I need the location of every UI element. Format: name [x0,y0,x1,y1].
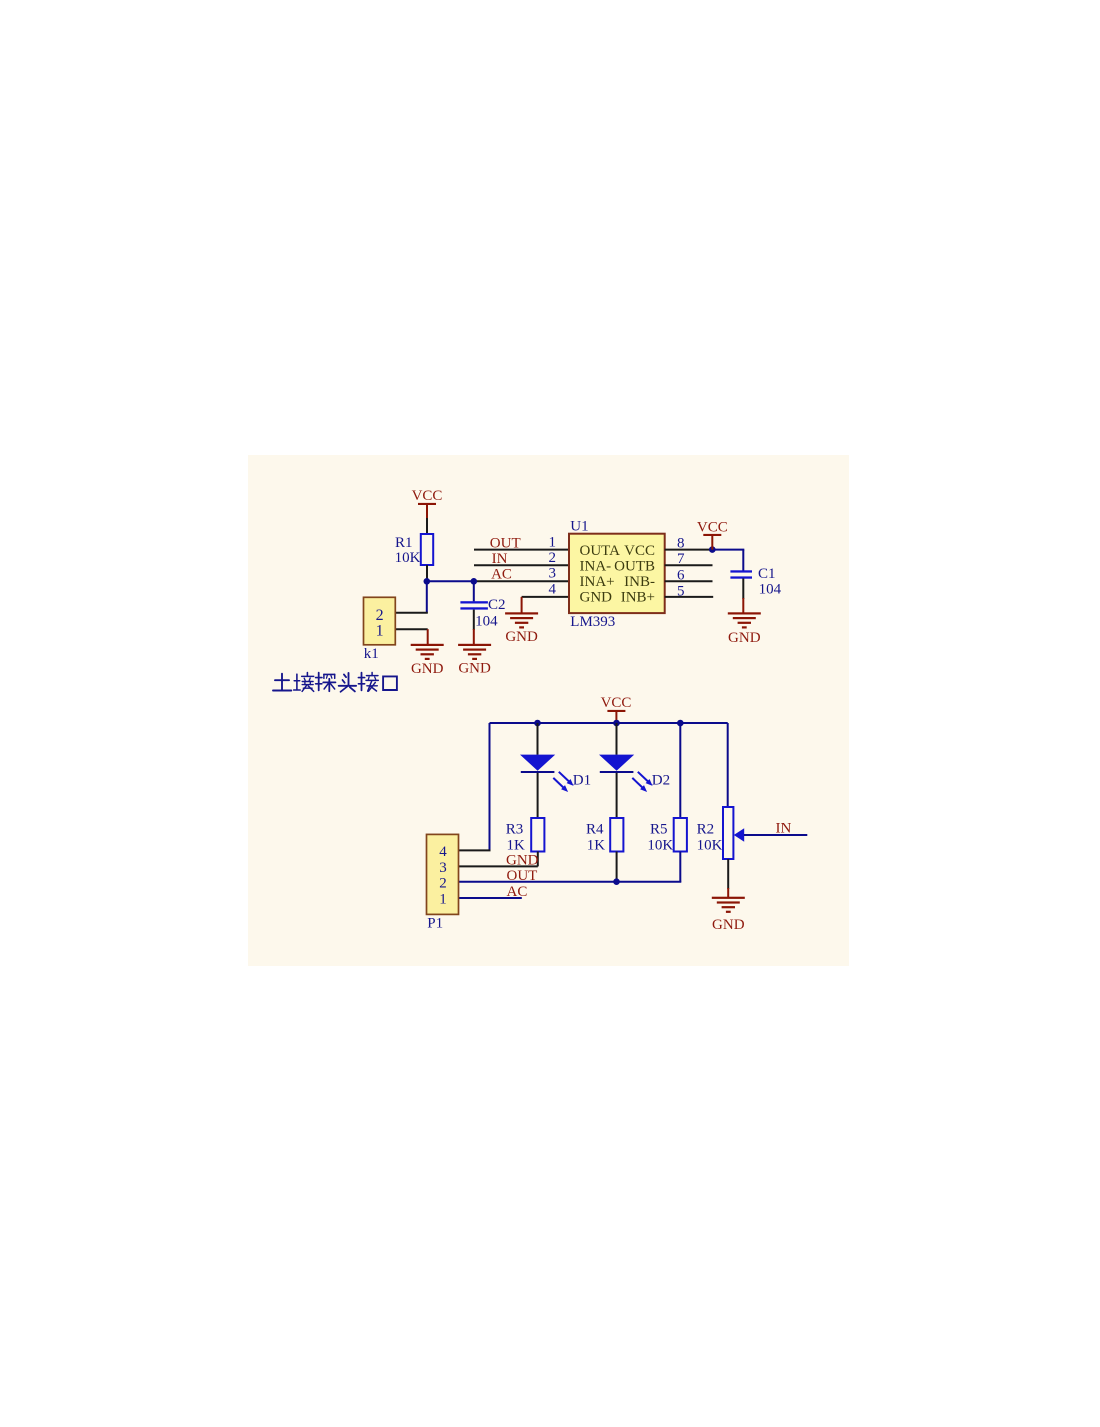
svg-text:IN: IN [776,821,792,837]
svg-text:GND: GND [411,661,444,677]
svg-text:D1: D1 [573,772,591,788]
svg-text:R3: R3 [506,822,524,838]
svg-text:C2: C2 [488,597,506,613]
svg-text:D2: D2 [652,772,670,788]
svg-text:1K: 1K [587,838,606,854]
svg-text:VCC: VCC [697,519,728,535]
svg-text:C1: C1 [758,566,776,582]
svg-text:10K: 10K [697,838,723,854]
svg-text:1: 1 [549,534,557,550]
svg-text:GND: GND [505,629,538,645]
svg-text:R4: R4 [586,822,604,838]
svg-text:10K: 10K [647,838,673,854]
svg-text:IN: IN [492,551,508,567]
svg-text:2: 2 [439,875,447,891]
svg-text:INA-: INA- [580,559,612,575]
svg-text:GND: GND [506,852,539,868]
svg-text:4: 4 [439,844,447,860]
svg-text:OUT: OUT [507,868,538,884]
svg-text:R2: R2 [697,822,715,838]
svg-text:AC: AC [491,567,512,583]
svg-text:10K: 10K [395,550,421,566]
svg-text:INB+: INB+ [621,590,655,606]
svg-text:OUTB: OUTB [614,559,655,575]
svg-text:1: 1 [439,891,447,907]
svg-text:OUTA: OUTA [580,543,621,559]
svg-text:GND: GND [458,661,491,677]
svg-text:U1: U1 [570,519,588,535]
svg-text:OUT: OUT [490,535,521,551]
svg-text:k1: k1 [364,646,379,662]
svg-text:GND: GND [728,630,761,646]
svg-text:104: 104 [759,582,782,598]
svg-text:AC: AC [507,884,528,900]
svg-text:VCC: VCC [601,695,632,711]
svg-text:1: 1 [376,623,384,640]
svg-text:3: 3 [439,860,447,876]
svg-text:INA+: INA+ [580,574,615,590]
svg-text:R1: R1 [395,535,413,551]
svg-text:3: 3 [549,566,557,582]
svg-text:GND: GND [712,917,745,933]
svg-text:4: 4 [549,582,557,598]
svg-text:VCC: VCC [412,488,443,504]
svg-text:2: 2 [549,550,557,566]
svg-text:2: 2 [376,607,384,624]
svg-text:1K: 1K [507,838,526,854]
svg-text:P1: P1 [427,915,443,931]
svg-text:LM393: LM393 [570,614,615,630]
svg-text:104: 104 [475,614,498,630]
svg-text:R5: R5 [650,822,668,838]
svg-text:GND: GND [580,590,613,606]
svg-text:INB-: INB- [624,574,655,590]
svg-text:VCC: VCC [624,543,655,559]
